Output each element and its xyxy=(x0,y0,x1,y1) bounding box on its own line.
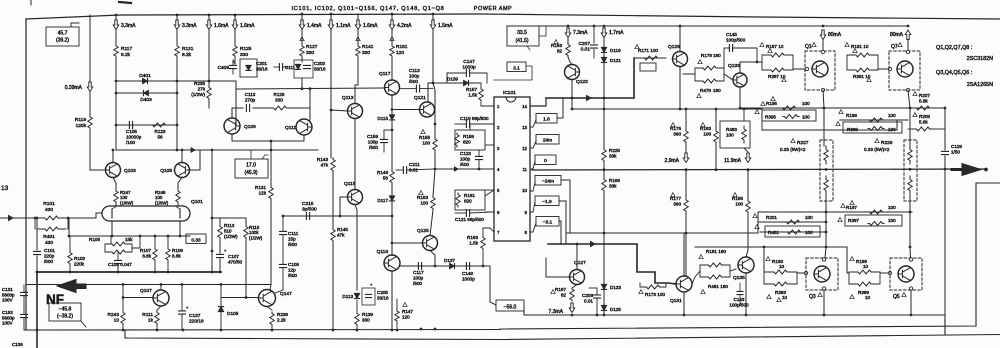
label marker R195 xyxy=(761,102,765,106)
label marker R175 xyxy=(671,123,675,127)
svg-text:R139: R139 xyxy=(362,312,373,317)
svg-text:0.01: 0.01 xyxy=(409,168,418,173)
wire pin13 stub xyxy=(530,120,536,127)
svg-text:C209: C209 xyxy=(582,293,593,298)
resistor R227 box xyxy=(820,140,833,201)
svg-text:56: 56 xyxy=(157,135,163,140)
svg-text:R201: R201 xyxy=(766,215,777,220)
voltage box -3.1 xyxy=(536,217,559,227)
node q131 xyxy=(683,314,686,317)
wire q5 down xyxy=(910,290,912,315)
wire NF line xyxy=(37,271,221,273)
node r163 xyxy=(482,265,485,268)
wire Q115 base xyxy=(340,197,348,216)
border frame top xyxy=(26,14,1000,19)
svg-text:0.01: 0.01 xyxy=(581,47,591,53)
svg-text:R197: R197 xyxy=(846,205,857,210)
wire r227 bot xyxy=(825,194,827,247)
resistor R109 xyxy=(166,248,170,261)
transistor Q103 xyxy=(106,163,121,178)
wire D105 col xyxy=(220,285,222,307)
wire col302c xyxy=(301,57,303,62)
label marker R185 xyxy=(733,193,737,197)
resistor R197 xyxy=(868,210,884,214)
wire Q133 c xyxy=(740,62,762,73)
node c101 xyxy=(36,217,39,220)
node rail out xyxy=(825,168,828,171)
resistor R185 xyxy=(746,200,750,213)
svg-text:180: 180 xyxy=(713,88,721,93)
node col433 xyxy=(432,13,435,16)
wire y108c xyxy=(292,89,310,108)
wire Q103 collector xyxy=(112,150,114,163)
svg-text:12: 12 xyxy=(522,146,527,151)
svg-text:820: 820 xyxy=(463,139,471,144)
svg-text:12k: 12k xyxy=(259,190,267,195)
arrowhead signal2 xyxy=(590,241,596,248)
svg-text:D119: D119 xyxy=(610,48,621,53)
wire r157 stub xyxy=(480,83,482,88)
current arrow 7.3mA xyxy=(565,28,571,38)
transistor Q147 xyxy=(259,290,276,307)
transistor Q121 xyxy=(420,102,435,117)
svg-text:100: 100 xyxy=(888,113,896,118)
svg-text:R105: R105 xyxy=(89,237,100,242)
resistor R161 box xyxy=(455,190,485,210)
wire Q115 e xyxy=(355,205,357,291)
wire y130 xyxy=(762,120,897,130)
wire col716a xyxy=(715,109,717,128)
svg-text:430: 430 xyxy=(45,207,53,213)
resistor R229 box xyxy=(904,140,917,201)
svg-text:Q147: Q147 xyxy=(280,291,292,297)
wire D403 rung xyxy=(116,92,177,94)
svg-text:C137: C137 xyxy=(189,313,201,319)
wire r207 right xyxy=(934,107,945,109)
node pair emit xyxy=(270,140,273,143)
svg-text:1.6mA: 1.6mA xyxy=(214,23,229,29)
svg-text:82: 82 xyxy=(557,48,563,53)
label marker R177 xyxy=(671,193,675,197)
svg-text:/500: /500 xyxy=(288,273,297,278)
wire box-24m link xyxy=(561,180,570,233)
svg-text:C159: C159 xyxy=(367,134,378,139)
svg-text:R235: R235 xyxy=(194,81,205,86)
svg-text:(45.9): (45.9) xyxy=(244,170,257,176)
resistor R249 xyxy=(176,190,180,203)
resistor R153 xyxy=(431,196,435,210)
wire col568 xyxy=(567,38,569,43)
svg-text:(−39.2): (−39.2) xyxy=(57,314,73,320)
wire r483 bot xyxy=(744,148,748,152)
svg-text:C117: C117 xyxy=(413,270,424,275)
wire r193 drop xyxy=(763,247,765,272)
wire C109 link xyxy=(275,282,283,293)
label marker R183 xyxy=(701,123,705,127)
svg-text:100: 100 xyxy=(420,200,428,205)
svg-text:D125: D125 xyxy=(610,307,621,312)
wire col748b xyxy=(747,170,749,200)
svg-text:+: + xyxy=(370,282,373,287)
node y266 xyxy=(434,265,437,268)
svg-text:C113: C113 xyxy=(245,92,256,97)
svg-text:11: 11 xyxy=(522,167,527,172)
wire col686b xyxy=(685,145,687,152)
svg-text:100: 100 xyxy=(726,132,734,137)
capacitor C209 xyxy=(594,295,601,298)
svg-text:Q3: Q3 xyxy=(809,294,816,300)
node y216 xyxy=(282,215,285,218)
capacitor C409 xyxy=(230,65,237,68)
wire col604b xyxy=(603,53,605,57)
svg-text:100p: 100p xyxy=(409,73,420,78)
label marker R395 xyxy=(755,110,759,114)
terminal q5 emit xyxy=(909,287,912,290)
resistor R171 xyxy=(642,56,660,60)
svg-text:Q113: Q113 xyxy=(342,95,354,101)
node y232 xyxy=(825,231,828,234)
svg-text:C211: C211 xyxy=(409,162,420,167)
resistor R129 xyxy=(268,106,292,110)
wire y120 xyxy=(840,119,908,121)
svg-text:R399: R399 xyxy=(847,127,858,132)
wire col433e xyxy=(434,152,436,169)
svg-text:10: 10 xyxy=(865,295,871,300)
node sigpath xyxy=(571,97,574,100)
svg-text:R397: R397 xyxy=(848,218,859,223)
svg-text:R187 10: R187 10 xyxy=(766,44,784,49)
wire y247 up xyxy=(847,247,849,273)
node col331 xyxy=(330,13,333,16)
svg-text:1.7mA: 1.7mA xyxy=(609,30,624,36)
wire Q131 c xyxy=(683,233,685,276)
svg-text:100p/500: 100p/500 xyxy=(726,38,746,43)
node y212 xyxy=(825,211,828,214)
svg-text:82: 82 xyxy=(561,292,567,297)
resistor R199 xyxy=(868,118,884,122)
svg-text:6: 6 xyxy=(497,210,500,215)
wire col748c xyxy=(746,213,748,257)
wire y212 xyxy=(758,211,912,213)
svg-text:R243: R243 xyxy=(108,312,120,318)
wire col331d xyxy=(332,172,334,228)
svg-text:Q127: Q127 xyxy=(574,260,586,266)
terminal q7 col xyxy=(906,50,909,53)
label marker R141 xyxy=(356,37,360,41)
resistor R113 xyxy=(218,224,222,240)
wire col392e2 xyxy=(391,184,393,195)
current arrow 1.5mA xyxy=(430,20,436,30)
wire y233 xyxy=(566,232,758,234)
node R115 xyxy=(245,296,248,299)
wire R239b xyxy=(271,326,273,330)
svg-text:R111: R111 xyxy=(142,312,153,318)
diode D113 xyxy=(354,293,359,298)
wire R147t xyxy=(396,299,398,310)
wire r179 line xyxy=(683,73,695,75)
wire col212 xyxy=(211,150,213,272)
svg-text:C101: C101 xyxy=(44,248,55,253)
wire col433d xyxy=(434,124,436,137)
svg-text:D113: D113 xyxy=(342,294,353,299)
wire loop3 out xyxy=(797,272,804,274)
svg-text:C149: C149 xyxy=(462,271,473,276)
current arrow 1.6mA c xyxy=(355,20,361,30)
resistor R179 R479 loop xyxy=(694,68,696,81)
wire Q103 base xyxy=(90,130,105,170)
svg-text:Q115: Q115 xyxy=(344,181,356,187)
svg-text:/100: /100 xyxy=(126,140,135,145)
node col392 xyxy=(391,129,394,132)
arrowhead signal xyxy=(586,95,592,102)
svg-text:+: + xyxy=(186,305,189,310)
svg-text:6.8k: 6.8k xyxy=(172,253,181,258)
voltage box -1.9 xyxy=(535,196,559,206)
wire col209 xyxy=(208,15,210,20)
node pin4 wire xyxy=(478,168,481,171)
label marker R391 xyxy=(867,78,871,82)
negative bus xyxy=(524,315,945,334)
svg-text:3.1: 3.1 xyxy=(513,66,520,72)
label marker R127 xyxy=(300,37,304,41)
svg-text:R157: R157 xyxy=(466,87,477,92)
label marker R209 xyxy=(913,113,917,117)
svg-text:24m: 24m xyxy=(543,137,552,143)
wire y108 right xyxy=(740,107,945,109)
node y108 xyxy=(823,107,826,110)
wire q3 top xyxy=(825,247,826,258)
capacitor C107 xyxy=(217,254,224,257)
wire R249 down xyxy=(177,203,179,206)
svg-text:R117: R117 xyxy=(121,46,132,52)
wire Q103 emitter xyxy=(113,178,116,191)
resistor R183 xyxy=(714,128,718,145)
label marker R191 xyxy=(845,43,849,47)
bias box xyxy=(640,63,656,71)
svg-text:Q107: Q107 xyxy=(140,288,152,294)
svg-text:220p: 220p xyxy=(44,253,55,258)
wire loop1 out xyxy=(793,68,805,70)
NF arrow xyxy=(57,280,86,293)
wire c129 col xyxy=(944,108,946,150)
svg-text:1.1mA: 1.1mA xyxy=(336,23,351,29)
node col392b xyxy=(391,215,394,218)
svg-text:R227: R227 xyxy=(797,140,809,146)
capacitor C121 xyxy=(466,210,469,217)
wire y108b xyxy=(253,107,268,109)
svg-text:14: 14 xyxy=(522,104,527,109)
svg-text:R103: R103 xyxy=(74,256,85,261)
svg-text:R121: R121 xyxy=(182,46,194,52)
wire R147b xyxy=(396,322,398,330)
resistor R127 xyxy=(300,45,304,57)
svg-text:15p: 15p xyxy=(288,236,296,241)
svg-text:100: 100 xyxy=(805,215,813,220)
wire pin11 stub xyxy=(530,161,535,169)
wire R107b xyxy=(154,261,156,272)
wire col331e xyxy=(332,242,334,330)
wire col604e xyxy=(603,192,605,284)
svg-text:R149: R149 xyxy=(377,170,388,175)
wire r179 to q133 xyxy=(724,74,733,80)
wire col392c xyxy=(391,57,393,80)
node input junction xyxy=(34,217,37,220)
svg-text:R479: R479 xyxy=(700,88,711,93)
transistor Q133 xyxy=(733,73,747,87)
wire R103b xyxy=(69,266,71,272)
resistor R141 xyxy=(356,45,360,57)
resistor R159 box xyxy=(455,130,485,150)
svg-text:R173 100: R173 100 xyxy=(645,292,665,297)
svg-text:R181 180: R181 180 xyxy=(706,249,726,254)
node q129b xyxy=(679,108,682,111)
wire y108 pair xyxy=(236,107,243,109)
wire R109b xyxy=(167,261,169,272)
svg-text:11.9mA: 11.9mA xyxy=(724,158,742,164)
svg-text:(1/2W): (1/2W) xyxy=(224,234,238,239)
svg-text:100: 100 xyxy=(802,115,810,120)
transistor Q115 xyxy=(348,190,363,205)
voltage box 45.7 xyxy=(46,27,79,46)
label marker R151 xyxy=(390,37,394,41)
svg-text:C207: C207 xyxy=(579,41,591,47)
resistor R139 xyxy=(355,312,359,326)
wire r161 pin5 xyxy=(485,190,494,196)
resistor R189 R389 loop xyxy=(848,272,850,284)
resistor R157 xyxy=(479,88,483,101)
wire 0.39mA column xyxy=(89,15,91,82)
capacitor C111 xyxy=(280,231,287,234)
transistor Q3 xyxy=(814,266,830,282)
border tick top-left xyxy=(30,0,32,5)
wire q3 down xyxy=(823,290,825,315)
svg-text:100p: 100p xyxy=(368,139,379,144)
svg-text:R169: R169 xyxy=(609,178,620,183)
wire Q105 base xyxy=(190,150,201,170)
svg-text:Q135: Q135 xyxy=(733,275,745,281)
wire d139 line xyxy=(428,82,463,84)
svg-text:C129: C129 xyxy=(951,144,962,149)
svg-text:R483: R483 xyxy=(726,127,737,132)
diode D403 xyxy=(144,90,149,95)
svg-text:0.39mA: 0.39mA xyxy=(65,85,83,91)
wire y247 xyxy=(695,246,847,248)
current arrow 1.4mA xyxy=(299,20,305,30)
voltage box 0.33 xyxy=(186,234,206,244)
wire C105 rung xyxy=(116,124,177,126)
svg-text:100p: 100p xyxy=(460,156,471,161)
svg-text:120: 120 xyxy=(402,314,410,319)
node v604 xyxy=(603,25,606,28)
output arrow xyxy=(962,164,981,176)
resistor R239 xyxy=(270,312,274,326)
svg-text:/500: /500 xyxy=(288,242,297,247)
node y150 xyxy=(270,149,273,152)
wire q5 top xyxy=(909,247,912,258)
label marker R153 xyxy=(419,191,423,195)
svg-text:2SA1265N: 2SA1265N xyxy=(967,82,993,88)
terminal q5 base xyxy=(888,271,891,274)
node q5 xyxy=(910,314,913,317)
svg-text:C103 0.047: C103 0.047 xyxy=(108,262,132,267)
wire col116b xyxy=(115,30,117,45)
svg-text:(41.5): (41.5) xyxy=(515,38,528,44)
transistor Q1 xyxy=(812,61,828,77)
wire Q135 e xyxy=(745,273,747,315)
svg-text:Q125: Q125 xyxy=(417,228,429,234)
svg-text:9: 9 xyxy=(525,210,528,215)
wire Q107 col xyxy=(160,285,162,291)
svg-text:100: 100 xyxy=(888,205,896,210)
transistor Q7 box xyxy=(889,51,920,90)
resistor R173 xyxy=(643,285,663,289)
label marker R207 xyxy=(913,92,917,96)
capacitor C145 xyxy=(729,45,732,52)
svg-text:−1.9: −1.9 xyxy=(542,199,552,205)
svg-text:R395: R395 xyxy=(765,115,776,120)
svg-text:33k: 33k xyxy=(609,183,617,188)
node col604c xyxy=(603,232,606,235)
label marker R181 xyxy=(699,255,703,259)
svg-text:/500: /500 xyxy=(409,79,418,84)
svg-text:R179: R179 xyxy=(701,53,712,58)
wire q1 top xyxy=(822,40,824,52)
wire R113 top xyxy=(212,218,246,224)
svg-text:33k: 33k xyxy=(609,153,617,158)
wire R131 down xyxy=(270,200,272,285)
resistor R107 xyxy=(153,248,157,261)
svg-text:R387 10: R387 10 xyxy=(768,74,786,79)
svg-text:120k: 120k xyxy=(76,123,87,129)
svg-text:R401: R401 xyxy=(768,230,779,235)
svg-text:D139: D139 xyxy=(447,77,458,82)
node col302 xyxy=(301,13,304,16)
wire loop to Q135 xyxy=(730,269,736,271)
node y247 xyxy=(763,246,766,249)
wire Q133 e xyxy=(739,87,741,108)
svg-text:−24m: −24m xyxy=(542,178,554,184)
svg-text:5.6k: 5.6k xyxy=(919,98,928,103)
svg-text:Q1: Q1 xyxy=(805,44,812,50)
wire Q109 top xyxy=(232,108,236,118)
capacitor C149 xyxy=(466,263,469,270)
svg-text:+: + xyxy=(224,248,227,253)
svg-text:Q105: Q105 xyxy=(160,168,172,174)
wire R105 right xyxy=(132,236,140,248)
node q3 xyxy=(823,314,826,317)
resistor R209 xyxy=(912,127,934,131)
wire col177b xyxy=(176,30,178,45)
label marker R155 xyxy=(421,130,425,134)
resistor R187 R387 loop xyxy=(761,55,763,70)
svg-text:330: 330 xyxy=(240,52,248,58)
wire col433b xyxy=(432,30,434,83)
capacitor C101 xyxy=(34,251,41,254)
svg-text:1k: 1k xyxy=(148,318,154,324)
capacitor C109 xyxy=(280,264,287,267)
svg-text:R195: R195 xyxy=(766,101,777,106)
svg-text:17.0: 17.0 xyxy=(246,163,256,169)
transistor Q5 xyxy=(898,266,914,282)
svg-text:Q117: Q117 xyxy=(379,71,391,77)
svg-text:1.8: 1.8 xyxy=(543,116,550,122)
svg-text:0.33: 0.33 xyxy=(191,238,201,244)
wire col392 xyxy=(391,14,393,20)
svg-text:100V: 100V xyxy=(2,321,13,326)
transistor Q131 xyxy=(676,276,692,292)
svg-text:Q133: Q133 xyxy=(728,63,740,69)
wire r395 left xyxy=(761,108,763,130)
